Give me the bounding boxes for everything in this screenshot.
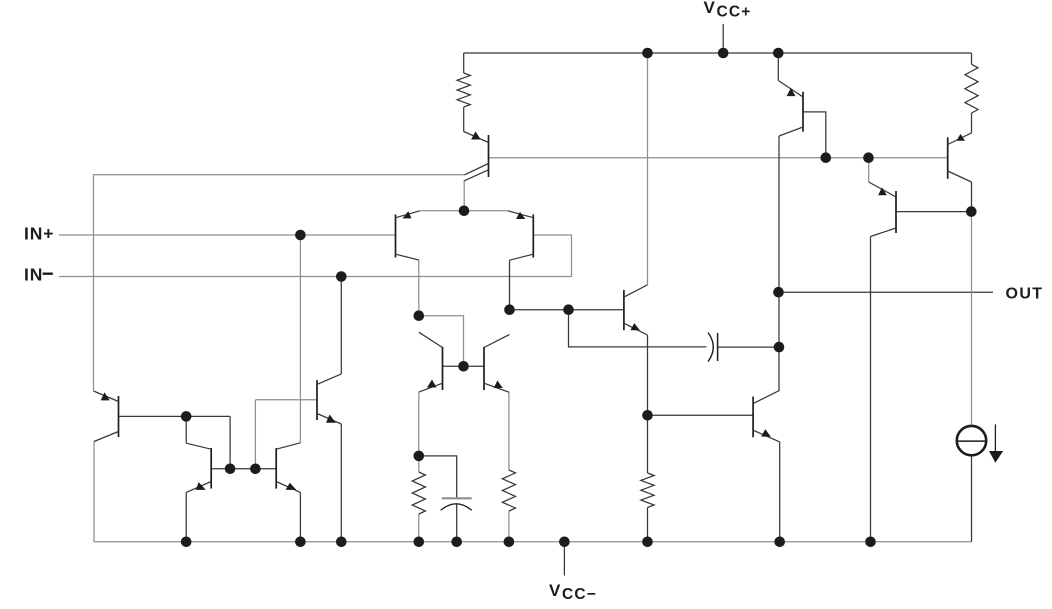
resistor R1: [457, 73, 470, 107]
wire: Q4 collector down to rail corner: [93, 442, 95, 542]
junction: IN- / Q7 collector: [336, 271, 347, 282]
svg-text:CC−: CC−: [562, 586, 597, 603]
wire: current source to negative rail: [971, 455, 973, 542]
wire: R1 bottom to Q1 emitter: [463, 107, 465, 132]
junction: Q8/Q9 common base: [458, 361, 469, 372]
wire: Q11 base loop: [803, 112, 826, 158]
junction: rail / R3: [414, 537, 425, 548]
junction: rail / Q10 collector: [642, 48, 653, 59]
wire: VCC+ positive supply rail (top): [464, 52, 972, 54]
junction: rail / R4: [504, 537, 515, 548]
node VCC+ label: [704, 0, 752, 20]
transistor Q14 (NPN): [753, 390, 780, 442]
transistor Q1 (dual-collector PNP): [464, 131, 489, 180]
resistor R3: [412, 472, 425, 514]
wire: C2 bottom to rail: [456, 505, 458, 542]
junction: node B / Q3 collector: [504, 304, 515, 315]
transistor Q9 (NPN): [484, 335, 510, 393]
wire: node B junction down to compensation capacitor: [569, 310, 707, 347]
wire: Q7 base corner down: [254, 400, 256, 469]
wire: Q12 collector down to negative rail: [870, 237, 872, 542]
wire: Q12 emitter from bias line: [868, 158, 870, 182]
svg-text:IN: IN: [24, 264, 43, 284]
junction: rail / Q5 emitter: [181, 537, 192, 548]
capacitor C1 (compensation): [708, 333, 718, 362]
wire: Q10 emitter down to Q14 base junction: [647, 335, 649, 415]
svg-text:OUT: OUT: [1006, 286, 1044, 303]
node VCC- label: [549, 581, 597, 603]
transistor Q11 (PNP): [778, 81, 803, 137]
wire: Q8/Q9 common base line: [443, 365, 485, 367]
junction: rail / R5: [642, 537, 653, 548]
junction: mirror base / Q7 base loop: [250, 464, 261, 475]
junction: node B / capacitor branch: [563, 304, 574, 315]
resistor R4: [502, 470, 515, 511]
wire: R3 top feed: [418, 456, 420, 472]
junction: rail / Q7 emitter: [336, 537, 347, 548]
junction: capacitor C1 / collector column: [774, 342, 785, 353]
junction: rail / Q14 emitter: [774, 537, 785, 548]
transistor Q13 (PNP): [948, 133, 972, 182]
capacitor C2 (curved plate): [441, 498, 472, 510]
node IN+ label: [24, 224, 54, 244]
junction: Q13 collector / Q12 base: [966, 206, 977, 217]
wire: Q5/Q6 common base line: [211, 468, 276, 470]
wire: input pair common emitter line: [420, 210, 508, 212]
wire: Q11 emitter feed from rail: [777, 53, 779, 81]
wire: Q14 base line: [648, 414, 754, 416]
wire: Q6 emitter down to rail: [299, 492, 301, 541]
junction: input pair emitters / Q1 collector: [459, 206, 470, 217]
junction: mirror base / Q4 base loop: [225, 464, 236, 475]
transistor Q7 (NPN): [317, 374, 341, 424]
wire: Q10 collector up to supply rail: [647, 53, 649, 285]
resistor R5: [641, 473, 654, 508]
wire: Q6 collector up to IN+ junction: [299, 235, 301, 443]
junction: rail / VCC- stub: [559, 537, 570, 548]
junction: Q10 emitter / Q14 base: [642, 410, 653, 421]
junction: Q4 base / Q5 collector: [181, 411, 192, 422]
svg-text:CC+: CC+: [717, 3, 752, 20]
junction: Q8 emitter / R3 / C2: [414, 451, 425, 462]
wire: base bias line from Q1 base to Q13 base: [489, 157, 948, 159]
wire: IN- input line: [59, 276, 572, 278]
junction: rail / C2: [451, 537, 462, 548]
wire: Q12 base to Q13 collector: [896, 211, 971, 213]
wire: Q2 collector down to node A: [418, 260, 420, 316]
junction: bias line / Q11 base: [821, 152, 832, 163]
junction: IN+ / Q6 collector: [295, 230, 306, 241]
junction: rail / Q11 emitter: [773, 48, 784, 59]
transistor Q3 (PNP, IN- input): [508, 211, 533, 260]
junction: bias line / Q12 emitter: [863, 152, 874, 163]
wire: R4 bottom to rail: [508, 511, 510, 542]
wire: R3 node to capacitor C2 branch: [419, 456, 457, 498]
transistor Q4 (PNP): [94, 391, 119, 442]
junction: OUT / collector column: [773, 287, 784, 298]
wire: Q5 collector up to Q4 base junction: [185, 416, 187, 443]
wire: Q4 base line: [119, 415, 231, 417]
transistor Q10 (NPN, gain stage): [624, 285, 648, 335]
junction: node A / Q2 collector: [414, 310, 425, 321]
svg-text:V: V: [704, 0, 716, 17]
wire: R3 bottom to rail: [418, 514, 420, 542]
wire: Q8 emitter down to R3 node: [418, 392, 420, 456]
resistor R2: [965, 64, 978, 113]
wire: Q5 emitter down to rail: [185, 492, 187, 541]
wire: node A to Q8/Q9 common base: [419, 316, 464, 367]
transistor Q5 (NPN mirror): [186, 443, 211, 492]
wire: R2 bottom to Q13 emitter: [971, 113, 973, 133]
wire: Q11 collector column down to Q14 collector: [778, 136, 780, 390]
transistor Q8 (NPN): [419, 332, 443, 392]
wire: Q1 second collector to left rail (long feedback wire): [94, 175, 465, 391]
wire: Q4 base corner down to mirror base: [229, 416, 231, 468]
wire: IN+ input line: [59, 234, 396, 236]
wire: Q13 collector down to base junction: [971, 182, 973, 213]
wire: Q14 base junction down to R5: [647, 415, 649, 473]
wire: Q3 collector down to node B: [509, 260, 511, 310]
node OUT label: [1006, 286, 1044, 303]
wire: Q7 emitter down to rail: [340, 424, 342, 542]
wire: VCC- terminal stub: [563, 542, 565, 576]
wire: R2 top feed from rail: [971, 53, 973, 64]
wire: R1 top feed from rail: [463, 53, 465, 73]
svg-text:V: V: [549, 581, 561, 600]
wire: node B to Q10 base: [510, 309, 624, 311]
wire: Q1 first collector down to emitter junction: [463, 180, 465, 211]
svg-text:IN+: IN+: [24, 224, 54, 244]
wire: capacitor C1 to collector column: [718, 346, 779, 348]
junction: rail / VCC+ stub: [718, 48, 729, 59]
wire: Q7 collector up to IN- junction: [340, 277, 342, 374]
wire: Q9 emitter down to R4: [508, 392, 510, 470]
node IN- label: [24, 264, 53, 284]
transistor Q2 (PNP, IN+ input): [396, 211, 421, 260]
junction: rail / Q6 emitter: [295, 537, 306, 548]
wire: VCC+ terminal stub: [722, 24, 724, 53]
transistor Q12 (PNP): [869, 182, 896, 237]
wire: VCC- negative supply rail (bottom): [94, 541, 972, 543]
wire: R5 bottom to rail: [647, 508, 649, 542]
wire: OUT output line: [779, 291, 994, 293]
wire: Q14 emitter down to negative rail: [779, 442, 781, 542]
current source I1: [957, 424, 1003, 462]
transistor Q6 (NPN mirror): [276, 443, 300, 493]
wire: Q3 base loop to IN-: [533, 235, 571, 277]
wire: output column down to current source: [971, 213, 973, 426]
junction: rail / Q12 collector: [865, 537, 876, 548]
wire: Q7 base loop to mirror base: [255, 399, 317, 401]
